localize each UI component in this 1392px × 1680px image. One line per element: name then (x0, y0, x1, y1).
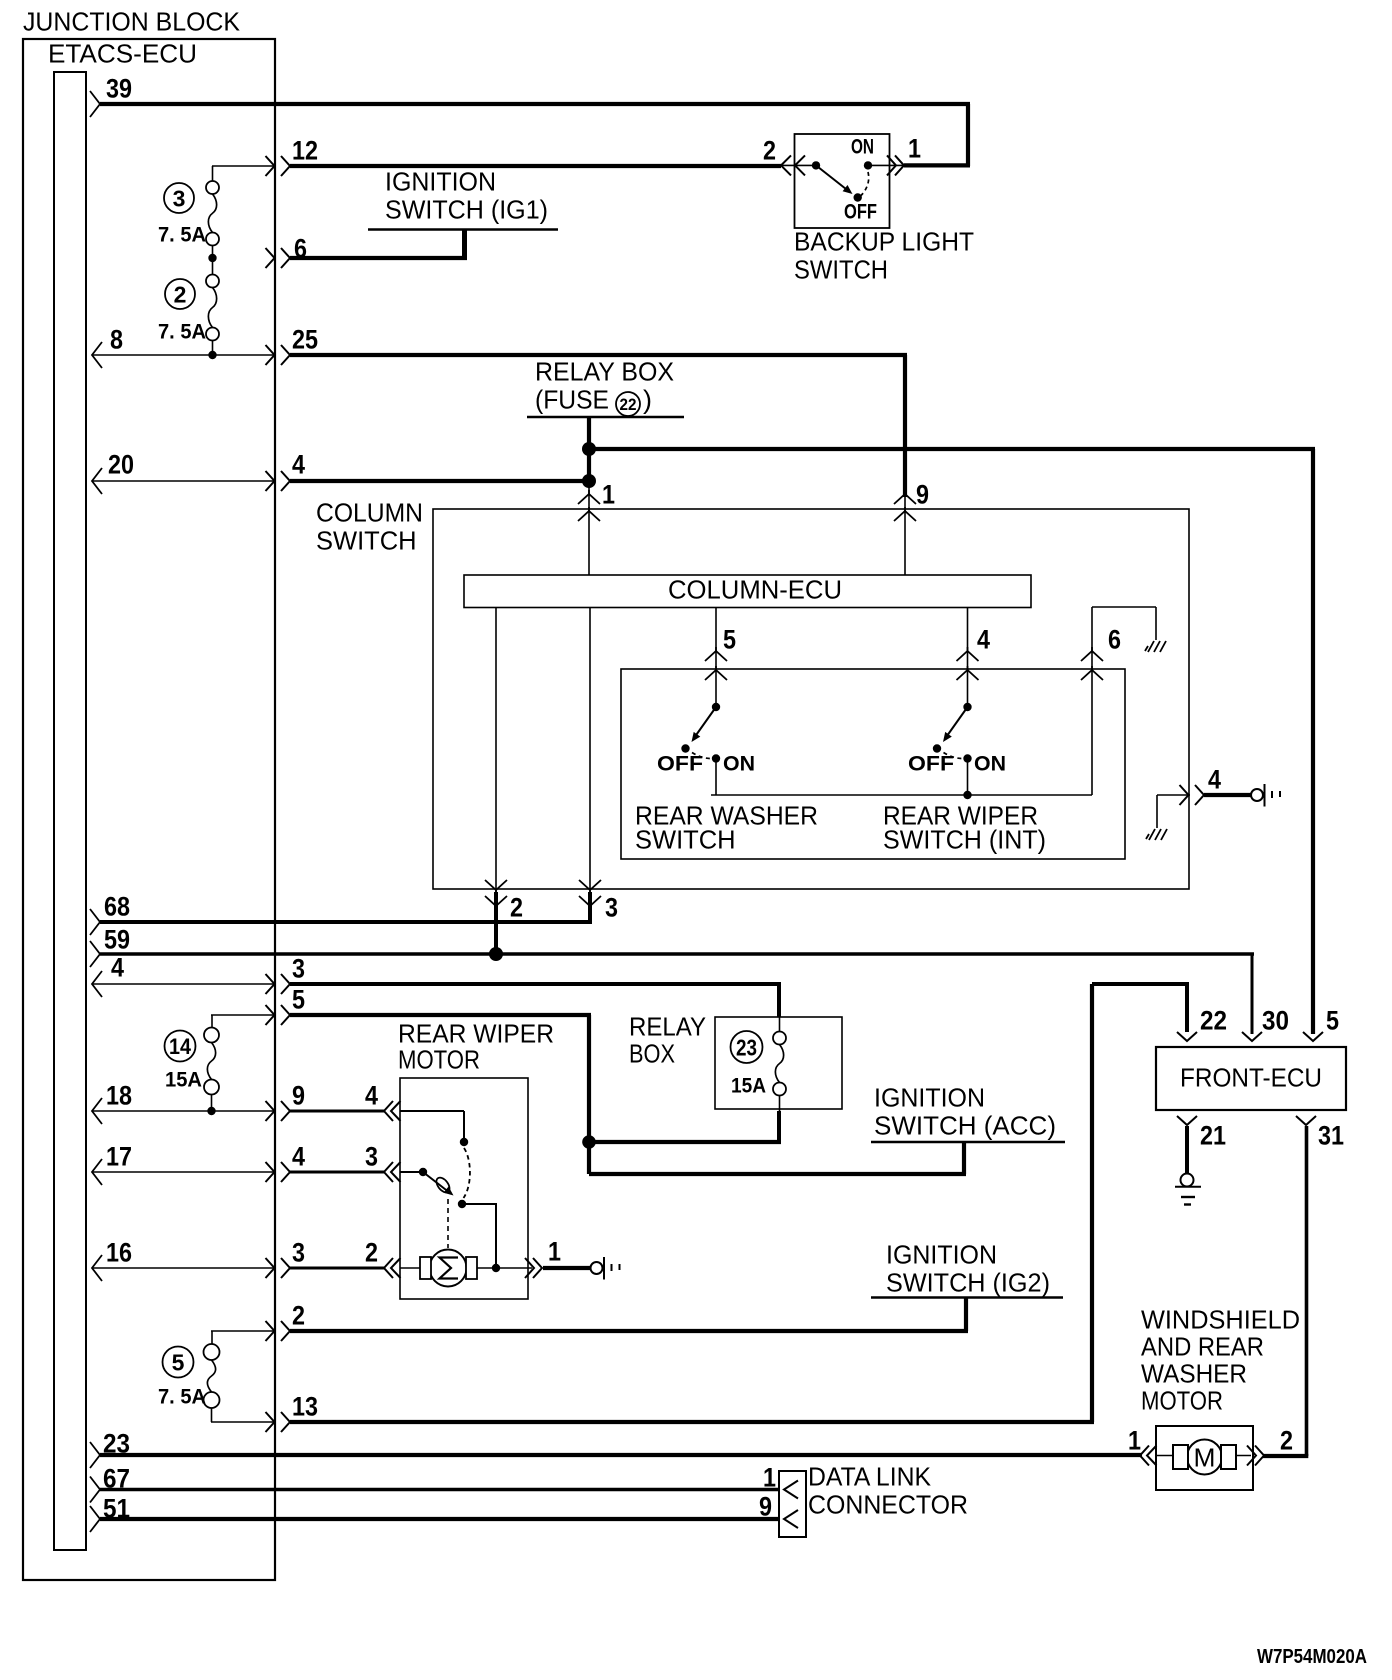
washer motor armature wire (1156, 1455, 1251, 1457)
pin 9 boundary connector (266, 1101, 291, 1121)
svg-text:REAR WIPER: REAR WIPER (398, 1021, 554, 1049)
backup switch internals (779, 164, 816, 166)
column switch pin 9 connector (894, 490, 916, 504)
wire pin2 to ignition switch IG2 (290, 1329, 968, 1333)
ETACS pin 39 arrow (90, 91, 100, 117)
svg-text:ON: ON (723, 752, 755, 775)
wire switch pin6 to ground (1091, 607, 1093, 795)
wire pin 4 (92, 983, 275, 985)
svg-text:OFF: OFF (908, 752, 954, 775)
svg-text:IGNITION: IGNITION (886, 1242, 997, 1270)
wire pin51 to data link pin 9 (100, 1517, 779, 1521)
wire pin6 to ignition switch IG1 (290, 256, 467, 260)
wire pin12 to backup light switch (290, 164, 781, 168)
pin 6 boundary connector (266, 248, 291, 268)
svg-text:SWITCH (INT): SWITCH (INT) (883, 827, 1046, 855)
svg-text:9: 9 (916, 480, 929, 510)
FRONT-ECU pin 30 connector (1242, 1032, 1262, 1041)
wire pin3 to motor pin 2 (290, 1267, 385, 1270)
pin 13 boundary connector (266, 1412, 291, 1432)
svg-text:13: 13 (292, 1392, 318, 1422)
park switch lever (423, 1172, 450, 1193)
svg-text:7. 5A: 7. 5A (158, 223, 206, 246)
wire washer ON to bus (715, 759, 717, 796)
washer motor M (1187, 1440, 1222, 1475)
svg-text:4: 4 (292, 450, 305, 480)
svg-text:W7P54M020A: W7P54M020A (1257, 1645, 1367, 1668)
node fuse14-pin18 (207, 1107, 215, 1115)
pin 3 boundary connector (266, 974, 291, 994)
wire pin21 to earth ground (1185, 1126, 1189, 1173)
svg-text:3: 3 (292, 1238, 305, 1268)
motor pin 4 connector (384, 1101, 401, 1121)
ETACS pin 68 arrow (90, 909, 100, 935)
motor pin 1 connector (525, 1258, 542, 1278)
wire motor pin1 to connector (543, 1266, 591, 1270)
column switch pin 1 connector (578, 490, 600, 504)
wire relay23 bottom run (589, 1140, 781, 1144)
ETACS pin 67 arrow (90, 1477, 100, 1503)
wire pin25 to column switch pin 9 (290, 353, 907, 357)
svg-text:(FUSE: (FUSE (535, 387, 609, 415)
ETACS pin 18 arrow (92, 1098, 102, 1124)
connector to ground (1251, 789, 1263, 801)
svg-text:DATA LINK: DATA LINK (808, 1464, 931, 1492)
svg-text:22: 22 (620, 396, 637, 414)
svg-text:2: 2 (292, 1301, 305, 1331)
svg-text:COLUMN-ECU: COLUMN-ECU (668, 577, 842, 605)
pin 12 boundary connector (266, 156, 291, 176)
svg-text:7. 5A: 7. 5A (158, 1385, 206, 1408)
FRONT-ECU pin 5 connector (1303, 1032, 1323, 1041)
switch ground bus (711, 794, 1092, 796)
fuse 14 (204, 1028, 219, 1043)
svg-text:25: 25 (292, 325, 318, 355)
svg-text:3: 3 (365, 1142, 378, 1172)
motor pin 3 connector (384, 1162, 401, 1182)
node motor output (492, 1264, 500, 1272)
svg-text:9: 9 (292, 1081, 305, 1111)
junction block box (23, 39, 275, 1580)
svg-text:2: 2 (1280, 1426, 1293, 1456)
relay box 23 box (715, 1017, 842, 1109)
svg-text:5: 5 (292, 985, 305, 1015)
svg-text:OFF: OFF (657, 752, 703, 775)
svg-text:1: 1 (602, 480, 615, 510)
wire wiper ON to bus (967, 759, 969, 796)
switch pin 4 connector (957, 647, 979, 661)
ETACS pin 23 arrow (90, 1442, 100, 1468)
wire column pin2 down (494, 892, 498, 956)
svg-text:5: 5 (1326, 1006, 1339, 1036)
svg-text:IGNITION: IGNITION (385, 169, 496, 197)
wire pin4 to body connector (1204, 793, 1252, 797)
motor armature wire (400, 1267, 532, 1269)
fuse 23 callout (731, 1031, 763, 1063)
svg-text:1: 1 (763, 1463, 776, 1493)
ETACS pin 20 arrow (92, 468, 102, 494)
svg-text:15A: 15A (731, 1074, 766, 1097)
svg-text:SWITCH (IG2): SWITCH (IG2) (886, 1270, 1050, 1298)
wire pin 59 to FRONT-ECU pin 30 (100, 952, 1254, 956)
motor pin 2 connector (384, 1258, 401, 1278)
COLUMN-ECU box (464, 575, 1031, 608)
washer motor box (1156, 1426, 1253, 1490)
FRONT-ECU pin 22 connector (1177, 1032, 1197, 1041)
svg-text:MOTOR: MOTOR (398, 1047, 480, 1075)
rear washer-wiper switch box (621, 669, 1125, 859)
pin 2 boundary connector (266, 1321, 291, 1341)
ETACS pin 16 arrow (92, 1255, 102, 1281)
wire pin9 to motor pin 4 (290, 1110, 385, 1113)
wire pin 8 (92, 354, 275, 356)
svg-text:SWITCH (IG1): SWITCH (IG1) (385, 197, 548, 225)
svg-text:31: 31 (1318, 1121, 1344, 1151)
mechanical link dashed (447, 1199, 449, 1248)
pin 3 boundary connector (266, 1258, 291, 1278)
node wiper-bus (963, 791, 971, 799)
wire fuse5 to pin 2 (211, 1330, 275, 1332)
svg-text:22: 22 (1200, 1006, 1227, 1036)
svg-text:15A: 15A (165, 1068, 202, 1091)
svg-text:3: 3 (605, 893, 618, 923)
svg-text:5: 5 (172, 1349, 185, 1375)
fuse 3 callout (164, 183, 194, 213)
svg-text:4: 4 (292, 1142, 305, 1172)
wire pin4 to motor pin 3 (290, 1171, 385, 1174)
svg-text:SWITCH: SWITCH (635, 827, 736, 855)
svg-text:SWITCH (ACC): SWITCH (ACC) (874, 1113, 1056, 1141)
column pin 4 boundary connector (1180, 785, 1205, 805)
node fuse2-pin8-pin25 (208, 351, 216, 359)
svg-text:3: 3 (292, 954, 305, 984)
node pin5-relay23 (582, 1135, 596, 1149)
wire pin4 to column switch pin 1 (290, 479, 591, 483)
motor park switch wiring (400, 1110, 464, 1112)
motor M1 (430, 1250, 467, 1287)
svg-text:ON: ON (974, 752, 1006, 775)
svg-text:2: 2 (365, 1238, 378, 1268)
svg-text:20: 20 (108, 450, 134, 480)
svg-text:IGNITION: IGNITION (874, 1085, 985, 1113)
svg-text:): ) (643, 387, 652, 415)
node fuse22-main (582, 442, 596, 456)
wire fuse5 to pin 13 (211, 1408, 213, 1422)
svg-text:FRONT-ECU: FRONT-ECU (1180, 1065, 1322, 1093)
wire fuse14 to pin 5 (211, 1014, 275, 1016)
svg-text:1: 1 (548, 1237, 561, 1267)
svg-text:17: 17 (106, 1142, 132, 1172)
svg-text:SWITCH: SWITCH (316, 528, 417, 556)
svg-text:39: 39 (106, 74, 132, 104)
column switch pin 2 connector (485, 880, 507, 894)
svg-text:18: 18 (106, 1081, 132, 1111)
svg-text:7. 5A: 7. 5A (158, 320, 206, 343)
svg-text:M: M (1194, 1443, 1216, 1473)
backup switch pin 1 connector (887, 155, 904, 175)
svg-text:5: 5 (723, 625, 736, 655)
wire column pin9 to COLUMN-ECU (904, 497, 906, 575)
earth ground pin21 (1181, 1174, 1194, 1187)
ground body column pin4 (1146, 829, 1167, 840)
wire fuse22 feed (587, 418, 591, 483)
column switch box (433, 509, 1189, 889)
svg-text:23: 23 (736, 1034, 757, 1060)
svg-text:BACKUP LIGHT: BACKUP LIGHT (794, 229, 974, 257)
switch pin 6 connector (1081, 647, 1103, 661)
ETACS pin 4 arrow (92, 971, 102, 997)
wire fuse3 to pin 12 (212, 165, 275, 167)
wire COLUMN-ECU to pin 2 (495, 607, 497, 892)
svg-text:OFF: OFF (844, 200, 877, 223)
FRONT-ECU pin 21 connector (1177, 1116, 1197, 1125)
wire pin5 trunk (290, 1013, 591, 1017)
svg-text:16: 16 (106, 1238, 132, 1268)
wire fuse2 to pin8 node (212, 341, 214, 356)
node fuse3-pin6 (208, 254, 216, 262)
wire COLUMN-ECU to pin 3 (589, 607, 591, 892)
fuse 5 (204, 1344, 220, 1360)
svg-text:WASHER: WASHER (1141, 1361, 1247, 1389)
svg-text:14: 14 (169, 1034, 192, 1059)
svg-text:JUNCTION BLOCK: JUNCTION BLOCK (23, 9, 240, 37)
data link connector box (779, 1471, 806, 1537)
svg-text:21: 21 (1200, 1121, 1226, 1151)
fuse 2 (206, 275, 219, 288)
park switch output wire (462, 1204, 496, 1268)
cam loop (434, 1175, 452, 1195)
fuse 14 callout (165, 1031, 196, 1062)
svg-text:AND REAR: AND REAR (1141, 1334, 1264, 1362)
column switch ground pin 4 wire (1157, 794, 1190, 796)
backup light switch box (795, 134, 890, 228)
main feed wire to FRONT-ECU pin 5 (589, 447, 1315, 451)
wire pin 68 to column pin 2... to column pin 3 (100, 920, 592, 924)
data link pin 9 (784, 1510, 798, 1528)
svg-text:3: 3 (173, 185, 186, 211)
wire COLUMN-ECU to wiper switch (967, 607, 969, 707)
svg-text:4: 4 (365, 1081, 378, 1111)
data link pin 1 (784, 1481, 798, 1499)
backup switch pin 2 connector (781, 155, 805, 175)
svg-text:WINDSHIELD: WINDSHIELD (1141, 1307, 1300, 1335)
svg-text:59: 59 (104, 925, 130, 955)
connector to ground motor (591, 1262, 603, 1274)
wire pin 20 (92, 480, 275, 482)
node pin4-column1 (582, 474, 596, 488)
fuse 23 (773, 1032, 786, 1045)
ETACS pin 51 arrow (90, 1506, 100, 1532)
svg-text:68: 68 (104, 892, 130, 922)
svg-text:6: 6 (1108, 625, 1121, 655)
washer motor pin 1 connector (1140, 1446, 1157, 1466)
svg-text:8: 8 (110, 325, 123, 355)
wire fuse3 to fuse2 (212, 246, 214, 275)
svg-text:SWITCH: SWITCH (794, 257, 888, 285)
wire pin39 to backup light switch (100, 102, 970, 106)
ETACS pin 59 arrow (90, 941, 100, 967)
svg-text:4: 4 (111, 953, 124, 983)
wire pin 17 (92, 1171, 275, 1173)
svg-text:9: 9 (759, 1492, 772, 1522)
svg-text:4: 4 (977, 625, 990, 655)
FRONT-ECU box (1156, 1047, 1346, 1110)
svg-text:4: 4 (1208, 765, 1221, 795)
wire pin 16 (92, 1267, 275, 1269)
svg-text:CONNECTOR: CONNECTOR (808, 1492, 968, 1520)
svg-text:COLUMN: COLUMN (316, 500, 423, 528)
wire backup pin1 (904, 163, 970, 167)
wire pin23 to washer motor pin 1 (100, 1453, 1142, 1457)
ETACS-ECU connector bar (54, 72, 86, 1550)
svg-text:2: 2 (510, 893, 523, 923)
wire pin 18 (92, 1110, 275, 1112)
svg-text:RELAY: RELAY (629, 1014, 706, 1042)
wire COLUMN-ECU to washer switch (715, 607, 717, 706)
node pin2-59 (489, 947, 503, 961)
ground body pin6 (1145, 641, 1166, 652)
svg-text:2: 2 (174, 281, 187, 307)
svg-text:ETACS-ECU: ETACS-ECU (48, 41, 197, 69)
rear wiper switch INT (963, 703, 971, 711)
wire pin3 to relay fuse 23 (290, 982, 781, 986)
wire pin67 to data link pin 1 (100, 1488, 779, 1492)
washer motor pin 2 connector (1247, 1446, 1264, 1466)
rear washer switch (712, 703, 720, 711)
wire pin31 to washer motor pin 2 (1305, 1126, 1309, 1456)
fuse 2 callout (165, 279, 195, 309)
pin 4 boundary connector (266, 471, 291, 491)
wire fuse14 to pin18 (211, 1095, 213, 1112)
svg-text:2: 2 (763, 136, 776, 166)
wire into column switch pin 1 (588, 483, 590, 575)
fuse 5 callout (163, 1347, 194, 1378)
pin 5 boundary connector (266, 1005, 291, 1025)
column switch pin 3 connector (579, 880, 601, 894)
svg-text:RELAY BOX: RELAY BOX (535, 359, 674, 387)
rear wiper motor box (400, 1078, 528, 1299)
ETACS pin 17 arrow (92, 1159, 102, 1185)
svg-text:12: 12 (292, 136, 318, 166)
svg-text:1: 1 (1128, 1426, 1141, 1456)
svg-text:MOTOR: MOTOR (1141, 1388, 1223, 1416)
svg-text:1: 1 (908, 134, 921, 164)
fuse 3 (206, 181, 219, 194)
FRONT-ECU pin 31 connector (1296, 1116, 1316, 1125)
wire ACC return (589, 1172, 966, 1176)
svg-text:BOX: BOX (629, 1041, 675, 1069)
svg-text:30: 30 (1262, 1006, 1289, 1036)
ETACS pin 8 arrow (92, 342, 102, 368)
svg-text:ON: ON (851, 135, 874, 158)
wire pin13 to FRONT-ECU pin 22 (290, 1420, 1094, 1424)
pin 25 boundary connector (266, 345, 291, 365)
switch pin 5 connector (705, 647, 727, 661)
pin 4 boundary connector (266, 1162, 291, 1182)
